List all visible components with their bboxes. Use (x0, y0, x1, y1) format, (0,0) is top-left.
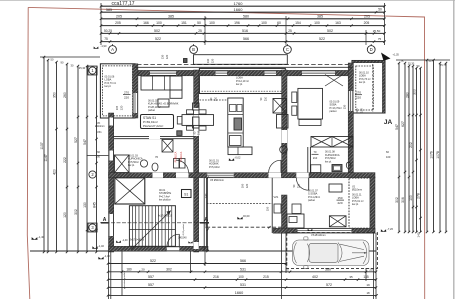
grid row marker box 1 (88, 66, 97, 75)
svg-text:205: 205 (364, 14, 370, 18)
svg-text:522: 522 (150, 259, 156, 263)
svg-text:-0,02 parket: -0,02 parket (182, 224, 185, 236)
svg-text:140/240: 140/240 (178, 237, 187, 240)
right dim line x399 (398, 63, 400, 232)
inner dim line patio (207, 178, 209, 251)
grid line stub D (370, 44, 372, 46)
right loggia top wall (352, 61, 385, 63)
svg-text:560: 560 (325, 267, 331, 271)
svg-text:196: 196 (234, 21, 240, 25)
svg-text:210: 210 (215, 96, 218, 101)
stair tread (141, 206, 143, 247)
svg-text:ker.pl.: ker.pl. (105, 85, 112, 88)
top block extension left (100, 3, 102, 45)
svg-text:220: 220 (337, 201, 342, 205)
svg-text:100: 100 (261, 21, 267, 25)
svg-text:210: 210 (197, 130, 200, 135)
flag -1,40 far left (32, 237, 38, 239)
left loggia party wall (133, 64, 138, 118)
bottom ext v7 (285, 233, 287, 273)
left dim line x96.5 (96, 68, 98, 252)
sofa horizontal (141, 76, 182, 90)
top block extension mid3 (365, 30, 367, 45)
svg-text:270: 270 (124, 91, 129, 95)
stair arrow head (166, 211, 170, 215)
flag -1,40 left (98, 257, 103, 259)
grid row marker box 3 (88, 223, 97, 232)
ceiling diag 2 (325, 75, 343, 87)
right dim line x416.5 (416, 68, 418, 232)
parking space dashed (287, 233, 378, 269)
svg-text:70: 70 (155, 155, 159, 159)
patio east rail (271, 178, 273, 233)
washbasin dark R (332, 165, 342, 172)
svg-text:ker.pl.: ker.pl. (325, 160, 332, 163)
chair left (177, 117, 182, 125)
svg-text:50: 50 (197, 21, 201, 25)
small room west wall (282, 195, 288, 228)
opening: window right living (302, 70, 335, 75)
svg-text:210: 210 (297, 183, 300, 188)
bottom ext v10 (375, 233, 377, 299)
svg-text:50,25: 50,25 (104, 29, 112, 33)
wall box 1 (193, 103, 200, 110)
svg-text:VZ Ø110mm: VZ Ø110mm (210, 179, 224, 182)
opening: window left living (150, 70, 176, 75)
grid bubble A (109, 46, 117, 54)
stair tread (148, 206, 150, 247)
svg-text:25,30: 25,30 (79, 66, 86, 70)
svg-text:502: 502 (154, 29, 160, 33)
svg-text:18: 18 (366, 291, 370, 295)
stair tread (161, 206, 163, 247)
entrance door opening (167, 246, 180, 251)
svg-text:ker.pločice: ker.pločice (159, 199, 171, 202)
svg-text:150: 150 (266, 206, 270, 211)
svg-text:585: 585 (106, 8, 112, 12)
flag 7,26 right (381, 229, 386, 231)
opening sliding door south (298, 228, 352, 233)
right strip fixture (280, 146, 288, 154)
elevation flag near A (94, 47, 99, 49)
svg-text:100: 100 (96, 155, 101, 159)
closet row X (311, 137, 353, 148)
svg-text:120: 120 (359, 108, 363, 113)
stair well outline (129, 206, 175, 247)
svg-text:120: 120 (63, 212, 67, 218)
svg-text:±0,00: ±0,00 (243, 214, 250, 218)
stair mid landing line (129, 229, 175, 231)
svg-text:-1,40: -1,40 (104, 254, 110, 258)
coffee table (158, 99, 169, 107)
opening: door to loggia right (265, 70, 277, 75)
svg-text:302: 302 (204, 223, 208, 228)
svg-text:-0,02: -0,02 (235, 156, 241, 160)
witness line left 155 (87, 155, 109, 157)
svg-text:100: 100 (241, 183, 245, 188)
svg-text:572: 572 (326, 283, 332, 287)
dryer box (180, 159, 186, 169)
top exterior wall (135, 70, 353, 75)
flag on south wall (308, 229, 313, 231)
bottom ext v5 (204, 251, 206, 266)
parcel boundary red line left (27, 7, 30, 299)
svg-text:60: 60 (277, 21, 281, 25)
stair up arrow line (131, 211, 171, 250)
svg-text:25,50: 25,50 (373, 29, 381, 33)
svg-text:205: 205 (364, 21, 370, 25)
svg-text:130: 130 (83, 202, 87, 208)
svg-text:100: 100 (386, 155, 391, 159)
svg-text:25: 25 (288, 29, 292, 33)
svg-text:35: 35 (349, 275, 353, 279)
svg-text:300: 300 (413, 89, 417, 95)
STAN S1 box (141, 115, 174, 129)
roof overhang dashed (137, 64, 351, 66)
svg-text:385: 385 (168, 14, 174, 18)
grid row bubble 1 (89, 67, 96, 74)
left dim line x87 (86, 66, 88, 252)
top block extension mid2 (285, 16, 287, 45)
svg-text:-1,40: -1,40 (122, 239, 128, 242)
svg-text:-1,40: -1,40 (98, 244, 104, 248)
svg-text:120: 120 (211, 58, 215, 63)
south wall stair block (109, 246, 209, 251)
svg-text:B: B (192, 47, 195, 52)
dark box near table (177, 131, 182, 136)
svg-text:205: 205 (115, 21, 121, 25)
top dim row 4 line (101, 32, 385, 34)
svg-text:270: 270 (356, 91, 361, 95)
stair tread (131, 206, 133, 247)
stair tread (145, 206, 147, 247)
svg-text:527: 527 (74, 137, 78, 143)
opening: door hall 1 (176, 173, 189, 178)
bath partition R a (307, 147, 309, 173)
svg-text:215: 215 (263, 275, 269, 279)
elevator diag 1 (115, 178, 145, 204)
chair bottom (187, 126, 194, 130)
svg-text:210: 210 (313, 156, 318, 160)
svg-text:260: 260 (63, 92, 67, 98)
right dim line x440 (439, 63, 441, 232)
svg-text:420: 420 (53, 169, 57, 175)
door arc room R (296, 178, 308, 190)
svg-text:1078: 1078 (436, 151, 440, 159)
right loggia right wall (382, 61, 385, 114)
ceiling diag 1 (325, 75, 343, 87)
bottom ext v4 (190, 251, 192, 273)
right loggia outline (352, 61, 385, 114)
bottom ext v9 (373, 233, 375, 299)
svg-text:230: 230 (343, 104, 347, 109)
svg-text:-1,90: -1,90 (101, 44, 107, 48)
svg-text:50: 50 (378, 7, 382, 11)
svg-text:302: 302 (74, 209, 78, 215)
stair tread (138, 206, 140, 247)
chair bottom (199, 126, 206, 130)
wc R (346, 162, 351, 168)
right strip cab 1 (277, 115, 289, 129)
left dim line x56.5 (56, 62, 58, 252)
bath partition bottom line (114, 138, 194, 140)
svg-text:parket: parket (330, 110, 337, 113)
svg-text:306: 306 (401, 197, 405, 203)
svg-text:180: 180 (126, 267, 132, 271)
bottom dim row5 (108, 294, 377, 296)
svg-text:531: 531 (240, 267, 246, 271)
right exterior wall (348, 63, 353, 178)
kitchen counter left unit (228, 98, 243, 147)
niche next to small room (274, 204, 281, 213)
svg-text:25: 25 (369, 267, 373, 271)
right block top tie (396, 59, 450, 61)
stair tread (151, 206, 153, 247)
right unit west wall (282, 70, 287, 178)
stair tread (158, 206, 160, 247)
svg-text:1137: 1137 (40, 142, 44, 149)
svg-text:D: D (370, 47, 373, 52)
left loggia dashed slab (103, 66, 133, 116)
pillow 2 (292, 106, 297, 115)
svg-text:A: A (103, 217, 107, 223)
top dim row 3 line (101, 25, 385, 27)
small dark box on overhang (184, 59, 188, 63)
spine wall lower gap (194, 242, 199, 249)
right dim line x433.5 (433, 60, 435, 232)
svg-text:100: 100 (209, 21, 215, 25)
right loggia dashed slab (356, 66, 374, 110)
svg-text:S1: S1 (184, 192, 188, 196)
svg-text:557: 557 (148, 283, 154, 287)
bed small room (287, 214, 304, 228)
svg-text:JA: JA (384, 119, 393, 126)
svg-text:-7,26: -7,26 (387, 227, 393, 231)
svg-text:385: 385 (317, 14, 323, 18)
left dim line x44 (43, 57, 45, 252)
svg-text:parket: parket (148, 109, 155, 112)
bottom dim row4 (108, 287, 376, 289)
svg-text:1076: 1076 (430, 151, 434, 159)
patio west rail inner (206, 178, 208, 247)
top block extension mid1 (204, 16, 206, 45)
fridge (230, 136, 242, 146)
svg-text:25: 25 (198, 29, 202, 33)
opening: window left wall small (109, 151, 114, 161)
washer box (174, 159, 180, 169)
flag kitchen (229, 158, 234, 160)
svg-text:205: 205 (116, 14, 122, 18)
ground line (30, 250, 376, 252)
bed master (298, 88, 323, 119)
svg-text:20: 20 (141, 267, 145, 271)
window band corridor wall (207, 173, 233, 178)
pillow small room (289, 217, 297, 223)
svg-text:502: 502 (327, 29, 333, 33)
svg-text:531: 531 (240, 283, 246, 287)
opening: window left wall 1 (109, 118, 114, 126)
svg-text:402: 402 (312, 275, 318, 279)
grid row bubble 2 (89, 171, 96, 178)
dining table (182, 115, 214, 126)
svg-text:100: 100 (409, 195, 413, 201)
grid line stub B (193, 44, 195, 46)
svg-text:P=5,04m²: P=5,04m² (209, 166, 220, 169)
right dim line x409 (408, 66, 410, 232)
svg-text:ker.pl.: ker.pl. (236, 83, 243, 86)
bottom ext v2 (110, 251, 112, 299)
bath partition top line (114, 135, 194, 137)
opening: opening central dining (194, 108, 199, 136)
svg-text:210: 210 (265, 96, 268, 101)
wardrobe X right strip (273, 99, 287, 114)
svg-text:350: 350 (53, 92, 57, 98)
wall box 2 (193, 117, 200, 128)
svg-text:163: 163 (335, 21, 341, 25)
opening: door to loggia left (216, 70, 228, 75)
svg-text:19: 19 (366, 283, 370, 287)
svg-text:VZ1: VZ1 (97, 131, 102, 134)
svg-text:216: 216 (213, 275, 219, 279)
svg-text:120: 120 (165, 54, 169, 59)
svg-text:C: C (286, 47, 289, 52)
elevator diag 2 (115, 178, 145, 204)
left exterior wall (109, 113, 114, 252)
door right unit (282, 130, 287, 143)
svg-text:220: 220 (356, 96, 361, 100)
svg-text:75: 75 (104, 37, 108, 41)
svg-text:115: 115 (355, 108, 359, 113)
svg-text:150: 150 (337, 196, 342, 200)
stair tread (164, 206, 166, 247)
svg-text:140: 140 (417, 232, 421, 237)
scan edge right (453, 0, 455, 299)
svg-text:100: 100 (238, 275, 244, 279)
scan edge top (0, 0, 455, 2)
top block extension right (384, 3, 386, 45)
svg-text:parket: parket (308, 199, 315, 202)
patio west rail outer (203, 178, 205, 251)
flag 0,00 (237, 217, 242, 219)
svg-text:Ploča=27,22m²: Ploča=27,22m² (143, 124, 163, 128)
left dim line x78 (77, 66, 79, 252)
left block top tie (40, 56, 100, 58)
svg-text:Ø110mm: Ø110mm (352, 189, 362, 192)
patio dashed line (207, 203, 273, 205)
grid bubble C (284, 46, 292, 54)
bottom dim row2 (108, 271, 376, 273)
entrance door arc (167, 234, 179, 246)
svg-text:9x17,6=28,19: 9x17,6=28,19 (158, 216, 173, 218)
svg-text:115: 115 (115, 105, 119, 110)
top dim row 5 line (101, 41, 385, 43)
left dim line x48 (47, 60, 49, 252)
svg-text:9x17,6=28,19: 9x17,6=28,19 (130, 240, 145, 242)
svg-text:Ø110mm: Ø110mm (95, 125, 105, 128)
svg-text:120: 120 (120, 105, 124, 110)
bottom ext v8 (365, 268, 367, 281)
wc L (152, 163, 158, 171)
wardrobe small room (329, 216, 346, 227)
svg-text:166: 166 (143, 21, 149, 25)
svg-text:302: 302 (166, 267, 172, 271)
stair tread (171, 206, 173, 247)
svg-text:220: 220 (124, 96, 129, 100)
svg-text:627: 627 (401, 121, 405, 127)
S1 box (182, 190, 192, 198)
svg-text:A: A (111, 47, 114, 52)
svg-text:VS Ø110mm: VS Ø110mm (311, 233, 326, 237)
svg-text:+1,35: +1,35 (393, 54, 400, 57)
svg-text:522: 522 (319, 37, 325, 41)
flag mid bottom (92, 246, 97, 248)
svg-text:140: 140 (204, 193, 208, 198)
window opening 270/220 right (348, 91, 353, 111)
window opening 270/220 left (133, 93, 138, 113)
svg-text:25,75: 25,75 (440, 63, 447, 67)
svg-text:566: 566 (243, 37, 249, 41)
bath partition R b (309, 147, 311, 173)
svg-text:1760: 1760 (234, 1, 244, 6)
top dim row 0 line (101, 5, 385, 7)
section line A-A dashes (100, 222, 210, 224)
lower right east wall (370, 177, 375, 233)
svg-text:100: 100 (314, 21, 320, 25)
svg-text:cca177,17: cca177,17 (111, 1, 134, 7)
svg-text:1147: 1147 (44, 154, 48, 161)
right dim line x413 (412, 66, 414, 232)
svg-text:120: 120 (245, 183, 249, 188)
partition door gap (149, 136, 160, 139)
svg-text:100: 100 (156, 21, 162, 25)
svg-text:302: 302 (395, 197, 399, 203)
svg-text:154: 154 (295, 21, 301, 25)
section line A right (200, 222, 209, 224)
svg-text:566: 566 (240, 259, 246, 263)
sink bowl 1 (230, 105, 237, 112)
central spine wall (194, 70, 199, 252)
pillow 1 (292, 92, 297, 103)
stair tread (167, 206, 169, 247)
svg-text:278: 278 (417, 193, 421, 199)
lower right south wall (273, 228, 375, 233)
opening: window left wall 2 (109, 214, 114, 236)
washbasin inner (334, 166, 340, 170)
opening: door hall 3 (296, 173, 308, 178)
grid bubble B (190, 46, 198, 54)
bottom ext v3 (121, 251, 123, 296)
shower R (311, 165, 321, 173)
svg-text:1660: 1660 (235, 291, 243, 295)
right dim line x405 (404, 63, 406, 232)
right dim line x420.5 (420, 68, 422, 232)
svg-text:ker.pl.: ker.pl. (352, 203, 359, 206)
door leaf hall M (280, 160, 282, 172)
counter L leg (228, 147, 252, 155)
patio dashed line south (207, 226, 282, 228)
right loggia dashed divider (372, 64, 374, 112)
upper floor slab outline (194, 55, 288, 65)
right dim line x446 (445, 63, 447, 232)
svg-text:280: 280 (406, 92, 410, 98)
svg-text:-1,40: -1,40 (38, 235, 45, 239)
svg-text:25,30: 25,30 (408, 62, 415, 66)
svg-text:PERILICA: PERILICA (175, 151, 178, 162)
dresser small room (329, 184, 342, 192)
svg-text:VZ1: VZ1 (274, 195, 279, 199)
grid row bubble 3 (89, 224, 96, 231)
door leaf room R (308, 178, 310, 190)
